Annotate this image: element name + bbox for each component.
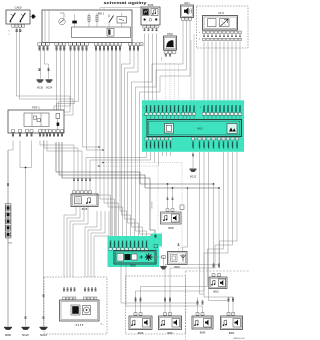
A0N connector pin row 2 — [203, 38, 242, 41]
svg-text:30 6B 9: 30 6B 9 — [190, 106, 192, 112]
svg-text:30 6B 9: 30 6B 9 — [224, 106, 226, 112]
svg-text:8630: 8630 — [138, 332, 144, 335]
wire PSF1 to ground M000 — [8, 141, 13, 327]
junction dots antenna leads — [98, 162, 104, 167]
junction node MC20 feed — [25, 167, 27, 326]
8655 connector pins — [63, 297, 97, 300]
ground M000 — [4, 327, 12, 337]
CA00 connector pins — [12, 24, 25, 27]
svg-text:30 6B 9: 30 6B 9 — [154, 106, 156, 112]
wire to speaker 8610 pin1 — [213, 184, 215, 265]
ground MC24 labels — [42, 294, 45, 320]
svg-text:34 6B 1: 34 6B 1 — [122, 242, 124, 248]
svg-text:30 6B 9: 30 6B 9 — [208, 106, 210, 112]
svg-text:30: 30 — [84, 290, 86, 292]
8410 pin stubs right — [204, 115, 240, 119]
svg-text:30 6B 9: 30 6B 9 — [166, 106, 168, 112]
label 8650 — [167, 332, 173, 335]
svg-text:30 6B 9: 30 6B 9 — [194, 106, 196, 112]
svg-text:30 6B 9: 30 6B 9 — [204, 141, 206, 147]
svg-text:34 6B 1: 34 6B 1 — [110, 242, 112, 248]
8600 top wire code labels — [110, 240, 148, 247]
svg-text:30: 30 — [164, 301, 166, 303]
dashed zone boundary bottom-right — [186, 271, 250, 340]
svg-text:MC30: MC30 — [37, 88, 44, 90]
label 8600 — [130, 264, 136, 267]
BSI1 internal fuses relays — [45, 8, 141, 43]
svg-text:8645: 8645 — [200, 332, 206, 335]
screened antenna lead 2 — [97, 166, 158, 231]
wires 8410 southwest — [86, 152, 171, 190]
svg-text:BSI 1: BSI 1 — [98, 11, 105, 15]
8902 connector pins — [227, 313, 235, 316]
wire PSF1 to ground MC24 — [43, 141, 45, 327]
label 6417 — [184, 2, 190, 5]
svg-text:30 6B 9: 30 6B 9 — [212, 106, 214, 112]
svg-text:30 6B 9: 30 6B 9 — [219, 141, 221, 147]
svg-text:30: 30 — [39, 50, 41, 52]
8615 top connector pins — [73, 191, 92, 194]
svg-text:30 6B 9: 30 6B 9 — [146, 106, 148, 112]
A0N connector pin row 1 — [203, 31, 242, 34]
svg-text:MC34: MC34 — [46, 88, 53, 90]
wires 6417 stub marks — [191, 34, 194, 104]
8902 wire code labels — [227, 297, 235, 302]
svg-text:30: 30 — [43, 50, 45, 52]
8600 antenna pin — [154, 245, 157, 251]
wire to speaker 8610 pin2 — [218, 188, 220, 265]
wire 8410 to 8630 (1) — [141, 152, 224, 313]
8410 bottom wire code labels — [146, 141, 239, 148]
8702 side mark — [161, 57, 162, 63]
wires 8615 to option unit B — [64, 207, 88, 278]
component 8645 speaker — [192, 316, 213, 329]
svg-text:8615: 8615 — [82, 208, 88, 211]
svg-text:30: 30 — [213, 267, 215, 269]
svg-text:CA00: CA00 — [15, 6, 22, 10]
component 8900 antenna — [168, 252, 188, 265]
svg-text:8 6 5 5: 8 6 5 5 — [76, 324, 84, 327]
svg-text:30 6B 9: 30 6B 9 — [150, 141, 152, 147]
svg-text:MC31: MC31 — [190, 177, 197, 179]
label 8702 — [167, 33, 173, 36]
wire 8410 to 8650 (1) — [170, 152, 233, 313]
svg-text:10: 10 — [146, 249, 148, 251]
svg-text:34 6B 1: 34 6B 1 — [142, 242, 144, 248]
svg-text:30 6B 9: 30 6B 9 — [183, 106, 185, 112]
8410 top connector pins left — [145, 113, 196, 116]
svg-text:30 6B 9: 30 6B 9 — [154, 141, 156, 147]
8605 wire code labels — [166, 197, 173, 201]
svg-text:schemat ogólny: schemat ogólny — [104, 1, 148, 5]
8615 top wire code labels — [73, 178, 91, 182]
wire 8410 to 8902 right (2) — [209, 152, 229, 313]
wire trio dark 3 — [62, 142, 155, 234]
8650 connector pins — [164, 313, 172, 316]
8600 tab wire code labels — [154, 235, 157, 239]
svg-text:8650: 8650 — [167, 332, 173, 335]
svg-text:6036: 6036 — [148, 4, 154, 7]
wire 8410 to 8650 (2) — [165, 152, 237, 313]
component 8605 speaker — [161, 212, 182, 224]
label A0N — [218, 12, 224, 15]
svg-text:30 6B 9: 30 6B 9 — [199, 141, 201, 147]
ground MC20 — [22, 327, 30, 337]
label 8645 — [200, 332, 206, 335]
wires A0N to 8410 (10) — [204, 41, 240, 104]
8655 corner mark — [100, 324, 104, 326]
6036 wire code labels — [144, 29, 158, 33]
svg-text:34 6B 1: 34 6B 1 — [130, 242, 132, 248]
svg-text:30 6B 9: 30 6B 9 — [162, 141, 164, 147]
8650 wire code labels — [164, 297, 172, 302]
wire trio dark 1 — [56, 142, 140, 184]
svg-text:8610: 8610 — [213, 291, 219, 294]
component 8655 option unit — [60, 300, 100, 321]
svg-text:10: 10 — [239, 32, 241, 34]
svg-text:▾: ▾ — [8, 30, 9, 33]
component CA00 ignition switch — [6, 10, 30, 24]
component 8702 buzzer — [164, 36, 177, 50]
svg-text:S: S — [143, 115, 144, 117]
svg-text:30 6B 9: 30 6B 9 — [236, 106, 238, 112]
wires bundle to option unit B 2 — [91, 211, 109, 277]
svg-text:30 6B 9: 30 6B 9 — [220, 106, 222, 112]
svg-text:8900: 8900 — [174, 266, 180, 269]
wire CA00 pin to PSF1 (1) — [17, 27, 71, 112]
wire BSI to PSF1 (c) — [63, 46, 65, 110]
svg-text:30: 30 — [67, 290, 69, 292]
BSI1 connector pins group A — [38, 43, 49, 46]
svg-text:30: 30 — [88, 290, 90, 292]
fusebox PSF1 — [8, 110, 64, 133]
svg-text:8605: 8605 — [168, 227, 174, 230]
wire PSF1 node branch 1 — [20, 141, 32, 168]
wire BSI to ground MC30 — [40, 46, 42, 79]
wires BSI group C to bundle — [83, 46, 104, 151]
PSF1 wire code labels — [12, 134, 63, 138]
8610 connector pins — [212, 274, 221, 277]
svg-text:30 6B 9: 30 6B 9 — [170, 141, 172, 147]
screened leads 8702 to 8410 — [166, 63, 179, 104]
8410 pin stubs left — [147, 115, 195, 119]
svg-text:30: 30 — [91, 290, 93, 292]
6036 connector pins — [143, 25, 158, 28]
wire 8600 to 8645 (2) — [126, 265, 203, 313]
svg-text:30 6B 9: 30 6B 9 — [162, 106, 164, 112]
label CA00 — [15, 6, 22, 10]
CA00 branch mark — [8, 30, 9, 37]
label 8605 — [168, 227, 174, 230]
8600 right pin to ground — [152, 256, 165, 266]
label 6036 — [148, 4, 154, 7]
component 8902 speaker — [221, 316, 243, 330]
svg-text:30 6B 9: 30 6B 9 — [178, 106, 180, 112]
inline connector 0004 on ground wire — [5, 204, 11, 239]
8655 wire code labels — [63, 287, 98, 292]
svg-text:30: 30 — [47, 50, 49, 52]
svg-text:34 6B 1: 34 6B 1 — [126, 242, 128, 248]
8702 connector pins — [164, 51, 176, 54]
svg-text:30: 30 — [232, 301, 234, 303]
svg-text:8902: 8902 — [229, 332, 235, 335]
svg-text:30 6B 9: 30 6B 9 — [166, 141, 168, 147]
8600 top connector pins — [109, 248, 148, 251]
svg-text:2: 2 — [161, 60, 162, 62]
svg-text:30: 30 — [63, 290, 65, 292]
highlight region 8410 — [142, 100, 244, 152]
svg-text:A0 N: A0 N — [218, 12, 224, 15]
screened antenna lead 1 — [97, 163, 182, 253]
svg-text:8702: 8702 — [167, 33, 173, 36]
CA00 wire labels — [15, 29, 22, 33]
ground MC34 wire labels — [47, 68, 50, 72]
wire BSI to ground MC34 — [45, 46, 49, 79]
wire 8410 to ground MC31 — [192, 152, 194, 168]
wire horizontal y188 with junctions — [145, 187, 220, 189]
BSI1 connector pins group B — [55, 43, 66, 46]
8605 connector pins — [166, 209, 174, 212]
svg-text:30 6B 9: 30 6B 9 — [228, 106, 230, 112]
highlight region 8600 tab — [151, 234, 162, 247]
svg-text:30 6B 9: 30 6B 9 — [158, 106, 160, 112]
svg-text:30: 30 — [70, 290, 72, 292]
title: schemat ogolny — [104, 1, 148, 5]
svg-text:8600: 8600 — [130, 264, 136, 267]
ground near 8600 — [160, 266, 167, 269]
svg-text:▸: ▸ — [161, 57, 162, 60]
svg-text:8410: 8410 — [197, 127, 203, 131]
component A0N option unit — [203, 16, 238, 31]
8410 bottom connector pins right — [192, 137, 239, 140]
PSF1 connector pins — [12, 130, 64, 133]
A0N mark — [199, 32, 201, 41]
svg-text:30: 30 — [218, 267, 220, 269]
svg-text:30 6B 9: 30 6B 9 — [232, 141, 234, 147]
svg-text:30: 30 — [74, 290, 76, 292]
svg-text:30 6B 9: 30 6B 9 — [228, 141, 230, 147]
svg-text:VE: VE — [169, 55, 171, 57]
svg-text:30 6B 9: 30 6B 9 — [213, 141, 215, 147]
ground MC20 labels — [24, 316, 27, 320]
svg-text:34 6B 1: 34 6B 1 — [114, 242, 116, 248]
6417 connector pins — [182, 18, 192, 21]
svg-text:30 6B 9: 30 6B 9 — [223, 141, 225, 147]
wires 6036 to 8410 (4) — [145, 34, 157, 105]
antenna solid drop — [183, 187, 189, 251]
svg-text:30: 30 — [95, 290, 97, 292]
svg-text:30 6B 9: 30 6B 9 — [186, 106, 188, 112]
wire PSF1 to 8615 (2) — [44, 141, 78, 191]
ground MC30 — [37, 79, 44, 89]
8410 top wire code labels right — [204, 105, 242, 112]
8645 connector pins — [196, 313, 204, 316]
svg-text:10: 10 — [239, 39, 241, 41]
wire 8410 to 8902 right (1) — [204, 152, 233, 313]
highlight region 8600 — [108, 236, 160, 267]
wires BSI group E to radio — [122, 46, 139, 237]
ground MC34 — [46, 79, 53, 89]
8410 bottom connector pins left — [145, 137, 172, 140]
svg-text:90: 90 — [178, 245, 180, 247]
component 8610 speaker — [209, 277, 227, 289]
svg-text:34 6B 1: 34 6B 1 — [146, 242, 148, 248]
wire BSI to PSF1 (a) — [56, 46, 58, 110]
svg-text:30 6B 9: 30 6B 9 — [150, 106, 152, 112]
svg-text:30 6B 9: 30 6B 9 — [158, 141, 160, 147]
svg-text:34 6B 1: 34 6B 1 — [134, 242, 136, 248]
svg-text:MC20: MC20 — [22, 334, 29, 337]
wire 8410 spare right — [200, 152, 205, 294]
svg-text:30: 30 — [140, 301, 142, 303]
svg-text:30: 30 — [169, 301, 171, 303]
svg-text:9: 9 — [200, 107, 201, 109]
component 6417 tweeter — [181, 5, 194, 18]
wires 6417 via corners to radio bundle — [132, 20, 191, 236]
svg-text:10—: 10— — [100, 324, 104, 326]
label PSF 1 — [32, 105, 40, 109]
svg-text:MC24: MC24 — [40, 334, 47, 337]
label 8900 — [174, 266, 180, 269]
dashed option enclosure C — [126, 276, 186, 334]
ground MC24 — [40, 327, 48, 337]
8410 top wire code labels left — [146, 105, 196, 112]
svg-text:30 6B 9: 30 6B 9 — [204, 106, 206, 112]
wire 8600 to 8645 (1) — [121, 265, 198, 313]
BSI1 pin wire code labels — [38, 46, 140, 51]
svg-text:a: a — [199, 32, 200, 34]
svg-text:30 6B 9: 30 6B 9 — [232, 106, 234, 112]
svg-text:30: 30 — [135, 301, 137, 303]
svg-text:9: 9 — [144, 107, 145, 109]
8702 wire code labels — [165, 54, 171, 58]
A0N wire labels row — [203, 35, 241, 38]
svg-text:30 6B 9: 30 6B 9 — [170, 106, 172, 112]
wire to speaker 8605 pin2 — [172, 188, 174, 208]
8610 wire code labels — [212, 263, 221, 268]
wires bundle to option unit B — [85, 211, 101, 277]
wire 8410 to 8630 (2) — [136, 152, 229, 313]
8900 wire code labels — [178, 242, 180, 246]
wires 8645 up — [198, 297, 203, 304]
svg-text:30 6B 9: 30 6B 9 — [174, 106, 176, 112]
ECU BSI1 body — [42, 10, 132, 43]
component 6036 display unit — [141, 7, 160, 25]
CA00 key knob icon — [30, 14, 36, 18]
BSI1 connector pins group E — [129, 43, 144, 46]
label 8630 — [138, 332, 144, 335]
svg-text:30 6B 9: 30 6B 9 — [146, 141, 148, 147]
ground MC31 — [190, 169, 197, 179]
component 8600 radio (highlighted) — [114, 251, 156, 265]
svg-text:10: 10 — [236, 138, 238, 140]
svg-text:U40 160-3: U40 160-3 — [152, 201, 154, 208]
footer drawing reference — [234, 338, 245, 340]
label 8902 — [229, 332, 235, 335]
wire trio dark 2 — [59, 142, 145, 188]
svg-text:2: 2 — [9, 34, 10, 36]
antenna lead connector — [180, 205, 184, 210]
8410 pin bracket marks — [143, 107, 201, 117]
svg-text:PSF 1: PSF 1 — [32, 105, 40, 109]
8630 connector pins — [134, 313, 142, 316]
svg-text:30 6B 9: 30 6B 9 — [193, 141, 195, 147]
M000 wire code labels — [7, 183, 10, 187]
svg-text:30 6B 9: 30 6B 9 — [208, 141, 210, 147]
wire PSF1 to 8615 (1) — [40, 141, 74, 191]
label connector 0004 — [8, 243, 13, 245]
wires BSI group C to PSF1 — [54, 46, 79, 110]
8410 top connector pins right — [202, 113, 241, 116]
8630 wire code labels — [134, 297, 142, 302]
component 8615 cd changer — [71, 194, 98, 207]
MC31 wire code labels — [192, 154, 195, 158]
8645 wire code labels — [196, 300, 204, 305]
dashed option enclosure B — [44, 277, 107, 334]
dashed option enclosure A — [197, 6, 249, 48]
svg-text:M000: M000 — [5, 334, 12, 337]
wire to speaker 8605 pin1 — [167, 184, 169, 208]
svg-text:30: 30 — [228, 301, 230, 303]
svg-text:34 6B 1: 34 6B 1 — [118, 242, 120, 248]
wire PSF1 to 8615 (3) — [47, 141, 82, 191]
svg-text:30 6B 9: 30 6B 9 — [240, 106, 242, 112]
BSI1 connector pins group D — [94, 43, 121, 46]
wire CA00 pin to PSF1 (2) — [20, 27, 74, 115]
label 8610 — [213, 291, 219, 294]
component 8410 amplifier (highlighted) — [147, 120, 242, 137]
svg-text:30 6B 9: 30 6B 9 — [237, 141, 239, 147]
8605 vertical wire label — [152, 201, 154, 208]
svg-text:6417: 6417 — [184, 2, 190, 5]
label BSI 1 — [98, 11, 105, 15]
svg-text:30 6B 9: 30 6B 9 — [216, 106, 218, 112]
svg-text:34 6B 1: 34 6B 1 — [138, 242, 140, 248]
BSI1 connector pins group C — [69, 43, 88, 46]
component 8650 speaker — [159, 316, 182, 330]
wire horizontal y184 with junctions — [140, 183, 214, 185]
ground MC30 wire labels — [38, 68, 41, 72]
ground M000 wire — [7, 150, 9, 326]
label 8615 — [82, 208, 88, 211]
wires BSI group D bundle to radio — [96, 46, 127, 237]
label 8655 — [76, 324, 84, 327]
component 8630 speaker — [129, 316, 152, 330]
wire BSI to PSF1 (b) — [60, 46, 62, 110]
